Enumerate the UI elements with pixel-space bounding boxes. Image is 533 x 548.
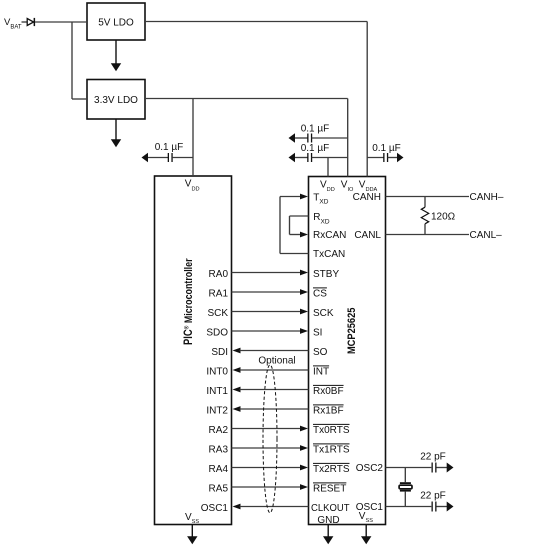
svg-text:0.1 µF: 0.1 µF — [301, 124, 330, 135]
svg-text:RA0: RA0 — [209, 269, 229, 280]
svg-text:Tx1RTS: Tx1RTS — [313, 444, 350, 455]
svg-text:PIC® Microcontroller: PIC® Microcontroller — [183, 258, 195, 345]
svg-text:CANL: CANL — [354, 230, 381, 241]
svg-text:RA1: RA1 — [209, 288, 229, 299]
svg-text:0.1 µF: 0.1 µF — [155, 142, 184, 153]
svg-text:SI: SI — [313, 327, 322, 338]
svg-text:MCP25625: MCP25625 — [346, 307, 358, 354]
svg-text:GND: GND — [317, 515, 339, 526]
svg-text:INT1: INT1 — [206, 386, 228, 397]
svg-text:INT2: INT2 — [206, 405, 228, 416]
svg-text:CANL–: CANL– — [470, 230, 503, 241]
svg-text:RA2: RA2 — [209, 425, 229, 436]
svg-text:Tx0RTS: Tx0RTS — [313, 425, 350, 436]
svg-text:CANH–: CANH– — [470, 192, 504, 203]
svg-text:CS: CS — [313, 288, 327, 299]
svg-text:Optional: Optional — [258, 356, 295, 367]
svg-text:INT: INT — [313, 366, 329, 377]
svg-text:SCK: SCK — [207, 308, 228, 319]
svg-text:Rx0BF: Rx0BF — [313, 386, 344, 397]
svg-text:CLKOUT: CLKOUT — [311, 503, 350, 514]
svg-text:RESET: RESET — [313, 483, 346, 494]
svg-text:OSC2: OSC2 — [356, 463, 384, 474]
svg-text:INT0: INT0 — [206, 366, 228, 377]
svg-text:OSC1: OSC1 — [201, 503, 229, 514]
svg-text:3.3V LDO: 3.3V LDO — [94, 95, 138, 106]
svg-text:SO: SO — [313, 347, 328, 358]
svg-text:SDO: SDO — [206, 327, 228, 338]
svg-text:RA3: RA3 — [209, 444, 229, 455]
svg-text:RA4: RA4 — [209, 464, 229, 475]
svg-text:SDI: SDI — [211, 347, 228, 358]
svg-text:STBY: STBY — [313, 269, 339, 280]
svg-text:5V LDO: 5V LDO — [98, 18, 134, 29]
svg-text:0.1 µF: 0.1 µF — [372, 143, 401, 154]
svg-text:CANH: CANH — [353, 192, 381, 203]
svg-text:22 pF: 22 pF — [420, 452, 446, 463]
svg-text:0.1 µF: 0.1 µF — [301, 143, 330, 154]
svg-text:SCK: SCK — [313, 308, 334, 319]
svg-text:RA5: RA5 — [209, 483, 229, 494]
svg-text:22 pF: 22 pF — [420, 491, 446, 502]
svg-text:TxCAN: TxCAN — [313, 249, 345, 260]
svg-text:120Ω: 120Ω — [431, 211, 456, 222]
svg-text:RxCAN: RxCAN — [313, 230, 346, 241]
svg-text:Tx2RTS: Tx2RTS — [313, 464, 350, 475]
svg-text:Rx1BF: Rx1BF — [313, 405, 344, 416]
